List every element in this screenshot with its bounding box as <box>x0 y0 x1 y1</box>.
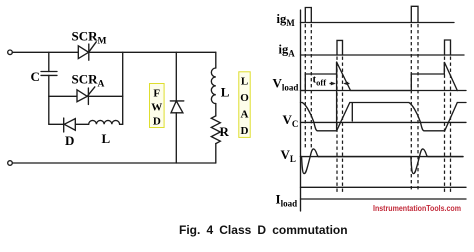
wire: top rail left segment <box>12 51 78 53</box>
freewheeling diode FWD <box>170 52 184 163</box>
svg-text:C: C <box>31 69 40 84</box>
svg-text:W: W <box>151 102 162 114</box>
inductor L (load) <box>211 68 215 104</box>
thyristor SCR_M <box>78 42 96 60</box>
ig_A gate pulse 1 <box>337 40 343 55</box>
svg-text:D: D <box>65 133 74 148</box>
inductor L (commutation) <box>89 120 120 124</box>
load branch wire (bottom) <box>215 144 217 163</box>
wire: SCR_A branch <box>49 95 77 97</box>
ig_M gate pulse 2 <box>411 6 418 22</box>
ig_M gate pulse 1 <box>305 8 311 23</box>
svg-text:L: L <box>221 85 230 100</box>
svg-text:D: D <box>153 116 161 128</box>
dashed timing lines pair 2 (ig_A pulse 1 edges) <box>336 57 338 193</box>
input terminal (top left) <box>8 50 13 55</box>
wire: top rail right segment <box>89 51 216 53</box>
wire: right column of commutation loop <box>122 52 124 124</box>
output terminal (bottom left) <box>8 161 13 166</box>
V_load baseline <box>301 90 467 92</box>
commutation instant solid marker (cycle 1) <box>336 62 338 130</box>
label LOAD (highlighted box) <box>239 72 250 138</box>
dashed timing lines pair 1 (ig_M pulse 1 edges) <box>305 24 450 192</box>
V_L waveform cycle 1 <box>301 149 319 174</box>
svg-text:R: R <box>220 124 230 139</box>
capacitor C <box>41 52 57 96</box>
dashed timing lines pair 3 (ig_M pulse 2 edges) <box>410 24 412 192</box>
waveform common vertical axis <box>300 10 302 211</box>
I_load baseline <box>301 198 467 200</box>
I_load constant current line <box>301 186 467 188</box>
wire: left column lower <box>48 96 50 124</box>
dashed timing lines pair 4 (ig_A pulse 2 edges) <box>444 57 446 193</box>
svg-text:L: L <box>241 76 248 88</box>
thyristor SCR_A <box>77 87 95 105</box>
V_C baseline <box>301 121 467 123</box>
ig_A gate pulse 2 <box>445 40 451 55</box>
t_off annotation <box>313 74 350 88</box>
V_C tick mark <box>351 103 353 121</box>
wire between L and R <box>215 104 217 116</box>
V_load waveform <box>301 62 458 91</box>
svg-text:A: A <box>241 109 249 121</box>
ig_A baseline <box>301 54 465 56</box>
ig_M baseline <box>301 22 455 24</box>
svg-text:InstrumentationTools.com: InstrumentationTools.com <box>373 203 461 213</box>
V_C waveform <box>301 103 467 131</box>
resistor R <box>211 116 220 144</box>
svg-text:D: D <box>241 125 249 137</box>
wire: bottom rail <box>12 162 215 164</box>
V_L baseline <box>301 156 464 158</box>
load branch wire (top) <box>215 52 217 68</box>
svg-text:O: O <box>240 92 249 104</box>
V_L waveform cycle 2 <box>319 149 463 174</box>
svg-text:F: F <box>153 88 160 100</box>
label FWD (highlighted box) <box>150 84 165 128</box>
svg-text:Fig. 4 Class D commutation: Fig. 4 Class D commutation <box>179 223 348 237</box>
wire: D-L branch <box>49 123 64 125</box>
diode D <box>64 118 76 132</box>
svg-text:L: L <box>102 131 111 146</box>
